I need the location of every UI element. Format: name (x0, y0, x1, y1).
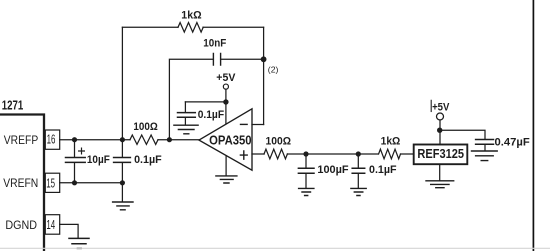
svg-text:1kΩ: 1kΩ (381, 135, 401, 147)
svg-text:REF3125: REF3125 (417, 146, 464, 161)
svg-text:0.1µF: 0.1µF (198, 109, 225, 121)
svg-text:100µF: 100µF (317, 164, 348, 176)
svg-text:+5V: +5V (432, 102, 450, 114)
svg-text:0.1µF: 0.1µF (134, 154, 162, 166)
svg-text:1271: 1271 (2, 98, 24, 113)
svg-text:100Ω: 100Ω (266, 136, 292, 148)
svg-text:14: 14 (46, 217, 55, 232)
svg-text:(2): (2) (268, 65, 279, 75)
svg-text:16: 16 (47, 131, 56, 146)
svg-text:OPA350: OPA350 (209, 133, 252, 148)
svg-text:10nF: 10nF (203, 37, 226, 49)
svg-text:VREFP: VREFP (4, 133, 38, 147)
svg-text:100Ω: 100Ω (133, 121, 158, 133)
svg-text:VREFN: VREFN (3, 176, 38, 190)
svg-text:0.47µF: 0.47µF (495, 137, 530, 149)
svg-text:15: 15 (46, 175, 55, 190)
svg-text:10µF: 10µF (87, 154, 110, 166)
svg-text:1kΩ: 1kΩ (181, 9, 201, 21)
svg-text:0.1µF: 0.1µF (369, 164, 397, 176)
svg-text:DGND: DGND (5, 218, 37, 232)
svg-text:+5V: +5V (216, 72, 236, 84)
